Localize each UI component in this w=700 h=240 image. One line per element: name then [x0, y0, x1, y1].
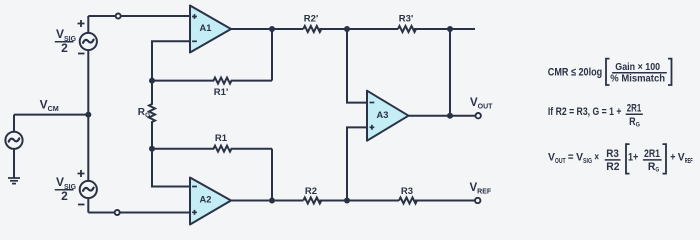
- label VSIG/2 top: [55, 27, 77, 55]
- svg-text:R2': R2': [304, 14, 318, 25]
- source VSIG/2 top: [78, 20, 97, 54]
- resistor R3': [398, 26, 416, 32]
- node junction A3 inverting: [344, 26, 350, 32]
- op-amp A1: [190, 6, 231, 53]
- svg-text:R: R: [629, 116, 636, 128]
- wire top rail A1 output: [231, 28, 303, 30]
- wire source2 bottom lead: [87, 198, 89, 213]
- label VSIG/2 bottom: [55, 175, 77, 203]
- node junction A1 output: [269, 26, 275, 32]
- svg-text:×: ×: [594, 152, 599, 164]
- svg-text:VREF: VREF: [470, 182, 492, 196]
- svg-text:2R1: 2R1: [644, 148, 660, 160]
- terminal VOUT: [476, 113, 481, 118]
- svg-text:% Mismatch: % Mismatch: [610, 72, 665, 84]
- source VSIG/2 bottom: [78, 170, 97, 205]
- terminal bottom input: [115, 210, 120, 215]
- svg-text:2: 2: [61, 189, 68, 203]
- svg-text:If R2 = R3, G = 1 +: If R2 = R3, G = 1 +: [548, 106, 622, 118]
- svg-text:R3: R3: [401, 186, 413, 197]
- svg-text:1+: 1+: [628, 152, 638, 164]
- wire A3 non-inverting branch: [347, 127, 367, 200]
- svg-text:R1': R1': [214, 87, 228, 98]
- wire top rail after R3' (stub): [414, 28, 475, 30]
- svg-text:G: G: [636, 121, 640, 128]
- svg-text:2R1: 2R1: [627, 103, 641, 115]
- svg-text:OUT: OUT: [555, 158, 566, 165]
- node junction VCM tap: [85, 112, 91, 118]
- wire VCM horizontal: [14, 114, 88, 116]
- wire source1 top lead: [87, 16, 89, 33]
- node junction R3' to output: [447, 26, 453, 32]
- svg-text:A2: A2: [200, 195, 212, 205]
- svg-text:R2: R2: [606, 161, 619, 173]
- source VCM: [5, 132, 22, 149]
- wire VCM source lead: [13, 115, 15, 132]
- resistor R1': [152, 78, 272, 84]
- equation 2: gain formula: [548, 103, 643, 129]
- equation 3: VOUT formula: [548, 144, 693, 174]
- node junction A2 feedback (RG bottom): [149, 146, 155, 152]
- op-amp A2: [190, 178, 231, 225]
- svg-text:R2: R2: [305, 186, 317, 197]
- resistor RG: [149, 81, 155, 149]
- wire bottom rail after R3 to VREF: [415, 200, 475, 202]
- wire A1 inverting input to RG node: [152, 41, 190, 80]
- svg-text:+: +: [670, 152, 675, 164]
- resistor R2': [303, 26, 321, 32]
- svg-text:A1: A1: [200, 23, 212, 33]
- terminal VREF: [475, 198, 480, 203]
- svg-text:SIG: SIG: [583, 158, 593, 165]
- resistor R3: [399, 198, 417, 204]
- node junction A3 non-inverting: [344, 198, 350, 204]
- svg-text:2: 2: [61, 41, 68, 55]
- ground: [8, 178, 20, 184]
- wire bottom rail between R2 and R3: [319, 200, 399, 202]
- svg-text:=: =: [568, 152, 574, 164]
- wire R1 right vertical to A2 output: [271, 149, 273, 201]
- node junction A3 output: [447, 113, 453, 119]
- terminal top input: [116, 14, 121, 19]
- svg-text:G: G: [655, 167, 659, 174]
- resistor R1: [152, 146, 272, 152]
- svg-text:A3: A3: [377, 110, 389, 120]
- wire R3' node down to A3 output: [449, 29, 451, 116]
- svg-text:VOUT: VOUT: [470, 97, 493, 111]
- wire top input rail: [88, 15, 190, 17]
- wire bottom rail A2 output: [231, 200, 303, 202]
- svg-text:R: R: [648, 161, 656, 173]
- wire main left vertical (source1 bottom to source2 top): [87, 50, 89, 181]
- wire VCM source to ground: [13, 149, 15, 178]
- equation 1: CMR limit: [548, 59, 672, 85]
- wire A3 inverting branch: [347, 29, 367, 103]
- svg-text:RG: RG: [138, 107, 151, 119]
- svg-text:CMR ≤ 20log: CMR ≤ 20log: [548, 67, 602, 79]
- wire top rail between R2' and R3': [319, 28, 398, 30]
- wire bottom input rail: [88, 212, 190, 214]
- svg-text:Gain × 100: Gain × 100: [615, 61, 660, 73]
- svg-text:REF: REF: [685, 158, 693, 165]
- wire A3 output to VOUT: [409, 115, 476, 117]
- svg-text:R3': R3': [399, 14, 413, 25]
- wire A2 inverting input to RG node: [152, 149, 190, 187]
- wire R1' right vertical to A1 output: [271, 29, 273, 81]
- op-amp A3: [367, 91, 409, 141]
- svg-text:R1: R1: [215, 133, 228, 144]
- svg-text:VCM: VCM: [40, 97, 59, 113]
- svg-text:R3: R3: [606, 148, 619, 160]
- node junction A2 output: [269, 198, 275, 204]
- resistor R2: [303, 198, 321, 204]
- node junction A1 feedback (RG top): [149, 78, 155, 84]
